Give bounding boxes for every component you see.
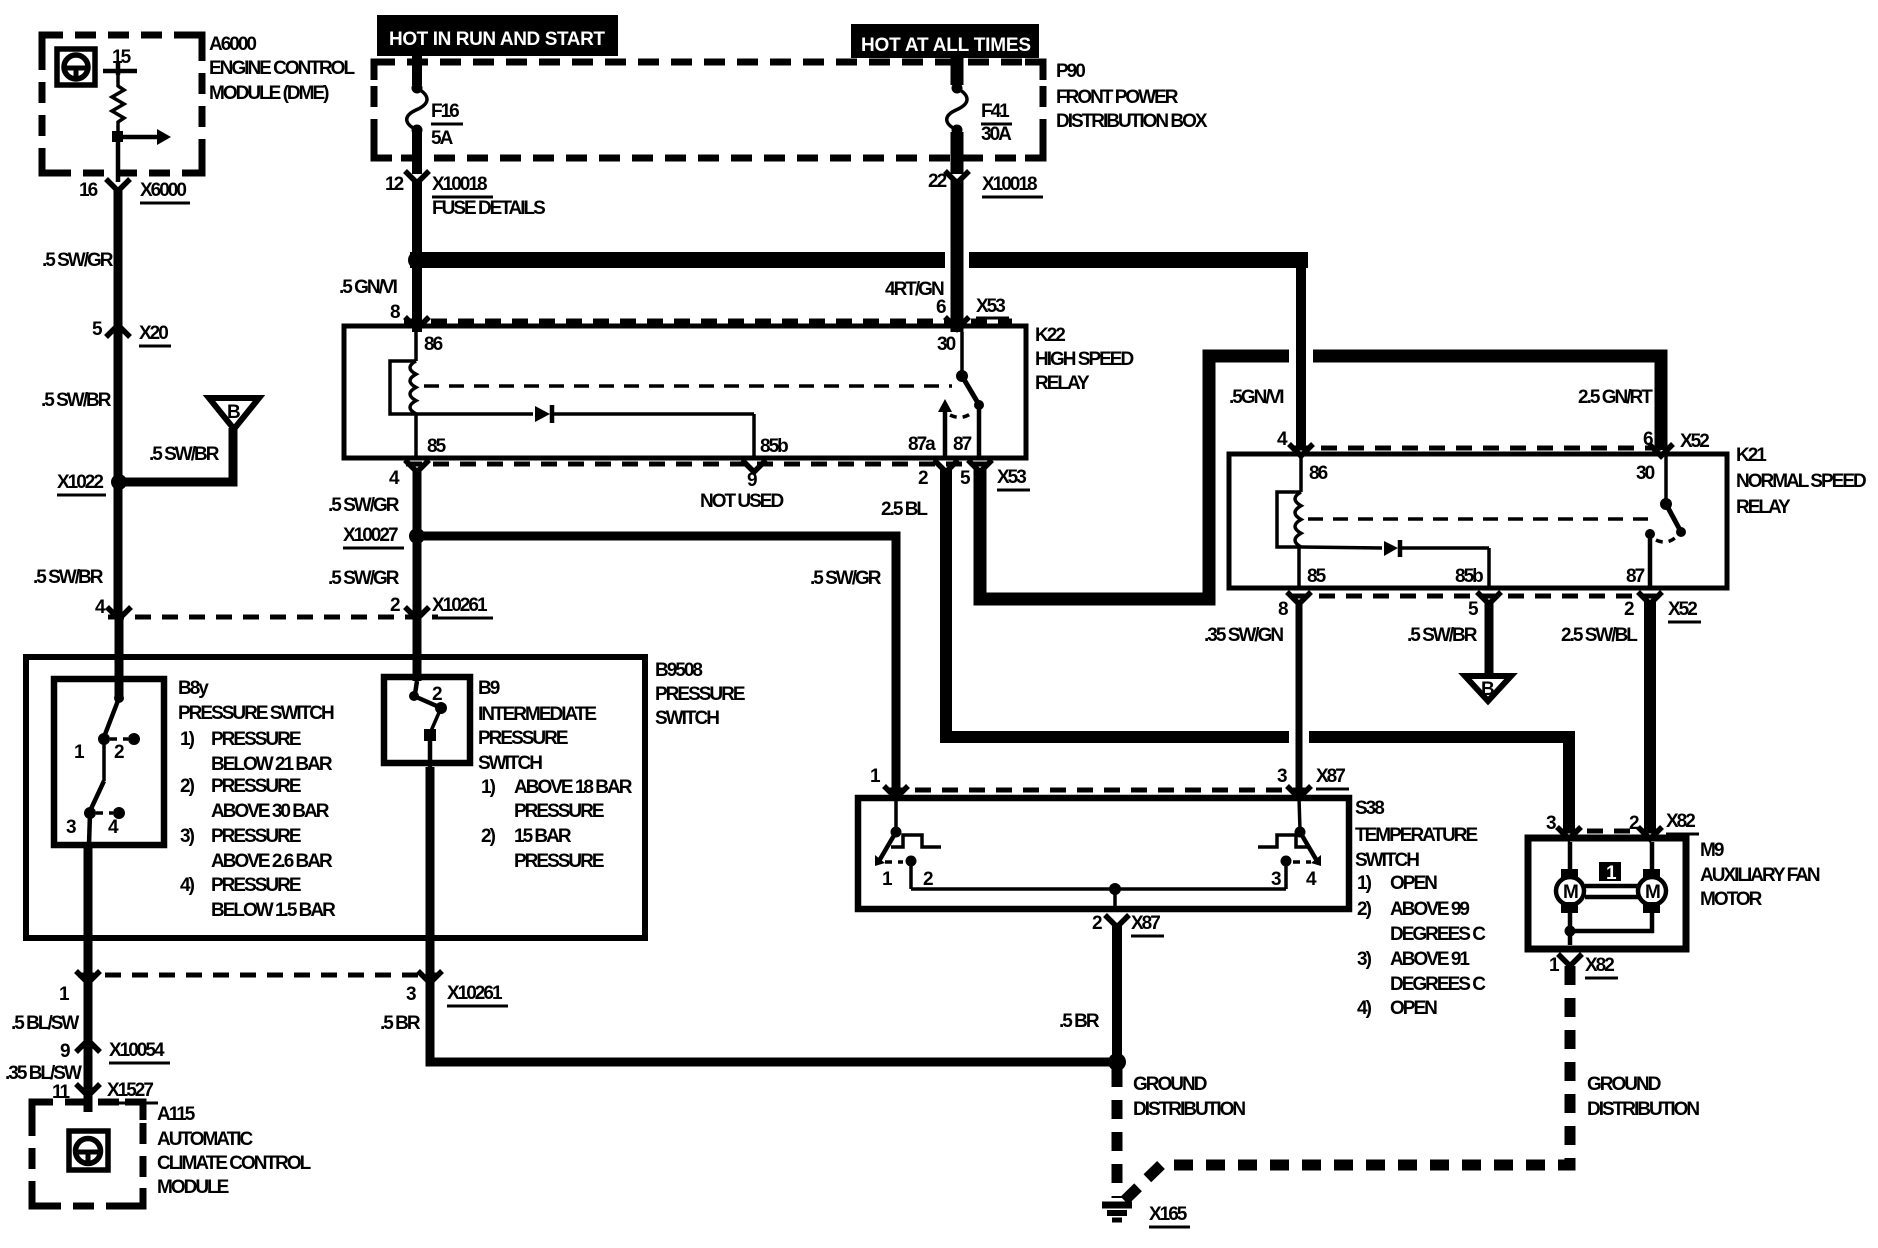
- wire bus right branch down to K21 pin4: [1296, 255, 1306, 447]
- connector X53 upper dashed line: [404, 319, 1012, 324]
- connector X82 pin 3 symbol: [1557, 827, 1581, 839]
- svg-text:F16: F16: [431, 101, 459, 122]
- svg-text:.5 SW/GR: .5 SW/GR: [810, 568, 882, 589]
- connector X53 pin 8 symbol: [405, 317, 429, 329]
- svg-text:MODULE: MODULE: [157, 1177, 229, 1198]
- label B8y description: [178, 678, 336, 921]
- svg-text:30: 30: [937, 334, 956, 355]
- svg-text:SWITCH: SWITCH: [478, 753, 542, 774]
- svg-text:87: 87: [953, 434, 972, 455]
- node junction bus at F16 wire: [408, 251, 426, 269]
- wire .5 SW/BR X20 to X1022: [114, 331, 123, 616]
- connector X10018 pin 22: [928, 171, 1043, 197]
- label K22 name: [1035, 325, 1133, 394]
- connector X10261 pin 2 symbol: [405, 607, 429, 619]
- svg-text:DEGREES C: DEGREES C: [1390, 924, 1486, 945]
- svg-text:22: 22: [928, 171, 947, 192]
- svg-text:.5 SW/BR: .5 SW/BR: [33, 567, 104, 588]
- label ground distribution right: [1587, 1074, 1699, 1120]
- svg-text:.5 SW/GR: .5 SW/GR: [42, 250, 114, 271]
- box B8y inner: [54, 679, 164, 845]
- svg-text:PRESSURE: PRESSURE: [478, 728, 568, 749]
- label X1022: [57, 472, 106, 495]
- connector X53 pin 9 symbol not used: [742, 460, 766, 472]
- svg-text:2): 2): [1357, 899, 1372, 920]
- wire K21 pin 85: [1297, 547, 1301, 588]
- arc dashed 87a-87 K22: [950, 412, 973, 417]
- resistor inside A6000: [112, 75, 124, 133]
- connector X82 dashed line: [1560, 829, 1658, 834]
- wire K21 coil to 85b with diode: [1301, 540, 1489, 588]
- switch K21 pin30 armature: [1660, 454, 1686, 537]
- label K21 name: [1736, 445, 1866, 518]
- svg-text:12: 12: [385, 174, 404, 195]
- svg-text:M: M: [1645, 882, 1660, 903]
- label A6000 name: [209, 34, 355, 104]
- svg-text:X1527: X1527: [107, 1080, 153, 1101]
- svg-text:NOT USED: NOT USED: [700, 491, 783, 512]
- connector X87 pin 1 symbol: [884, 786, 908, 798]
- svg-text:9: 9: [747, 470, 757, 491]
- svg-text:X10018: X10018: [432, 174, 487, 195]
- connector X10261 upper dashed line: [108, 615, 438, 620]
- svg-text:85b: 85b: [1455, 566, 1483, 587]
- wire dashed ground distribution left: [1112, 1068, 1123, 1198]
- svg-text:.5 SW/BR: .5 SW/BR: [1407, 625, 1478, 646]
- wire S38 ground .5 BR: [1112, 923, 1122, 1062]
- connector X87 pin 2 symbol: [1092, 913, 1164, 936]
- svg-text:MODULE (DME): MODULE (DME): [209, 83, 329, 104]
- svg-text:8: 8: [1278, 599, 1288, 620]
- svg-text:3: 3: [66, 817, 76, 838]
- svg-text:HIGH SPEED: HIGH SPEED: [1035, 349, 1133, 370]
- label A115 name: [157, 1104, 312, 1198]
- box A6000 corner ticks: [42, 35, 202, 173]
- label HOT AT ALL TIMES: [851, 24, 1039, 58]
- svg-text:X10261: X10261: [432, 595, 488, 616]
- label X10261 upper: [432, 595, 493, 618]
- svg-text:A6000: A6000: [209, 34, 256, 55]
- wire S38 output pin2: [1113, 889, 1117, 909]
- box P90 front power distribution: [374, 62, 1043, 158]
- svg-text:DISTRIBUTION: DISTRIBUTION: [1133, 1099, 1245, 1120]
- wire F16 down to K22 coil: [412, 180, 422, 332]
- svg-text:ABOVE 99: ABOVE 99: [1390, 899, 1469, 920]
- svg-text:.5 BL/SW: .5 BL/SW: [11, 1013, 79, 1034]
- svg-text:1): 1): [180, 729, 195, 750]
- svg-text:X6000: X6000: [140, 180, 186, 201]
- link dashed K22 coil to switch: [424, 384, 952, 388]
- svg-text:15: 15: [112, 47, 132, 68]
- connector X6000 pin 16: [79, 179, 190, 203]
- svg-text:2: 2: [432, 684, 442, 705]
- label X53 lower: [997, 467, 1030, 490]
- coil K22: [390, 332, 416, 414]
- connector X10261 pin 3 symbol: [418, 971, 442, 983]
- fuse F16 5A: [407, 56, 427, 174]
- wire S38 internal common: [911, 883, 1286, 895]
- svg-text:SWITCH: SWITCH: [1355, 850, 1419, 871]
- svg-text:4): 4): [180, 875, 195, 896]
- connector X53 pin 4 symbol: [405, 460, 429, 472]
- node ground junction dot: [1108, 1053, 1126, 1071]
- module A115 automatic climate control box: [32, 1102, 143, 1206]
- box B9 inner: [384, 677, 470, 763]
- label B9 description: [478, 678, 633, 872]
- svg-text:9: 9: [60, 1041, 70, 1062]
- motor M9 internals: [1556, 842, 1666, 945]
- svg-text:86: 86: [424, 334, 443, 355]
- connector X52 pin 2 symbol: [1638, 592, 1662, 604]
- label S38 name and list: [1355, 798, 1486, 1019]
- svg-text:AUXILIARY FAN: AUXILIARY FAN: [1700, 865, 1820, 886]
- svg-text:TEMPERATURE: TEMPERATURE: [1355, 825, 1478, 846]
- connector X52 upper dashed line: [1294, 446, 1670, 451]
- switch S38 temperature box: [858, 798, 1349, 909]
- svg-text:.5 BR: .5 BR: [380, 1013, 421, 1034]
- svg-text:X10018: X10018: [982, 174, 1037, 195]
- svg-text:X87: X87: [1131, 913, 1160, 934]
- label X52 upper: [1680, 431, 1713, 454]
- svg-text:30: 30: [1636, 463, 1655, 484]
- svg-text:5A: 5A: [431, 128, 454, 149]
- connector X20 pin 5: [92, 319, 171, 346]
- wire into B8y: [115, 617, 124, 700]
- svg-text:1): 1): [1357, 873, 1372, 894]
- svg-text:X1022: X1022: [57, 472, 103, 493]
- wire .5 SW/GR from X6000 to X20: [114, 189, 123, 331]
- svg-text:ENGINE CONTROL: ENGINE CONTROL: [209, 58, 355, 79]
- svg-text:NORMAL SPEED: NORMAL SPEED: [1736, 471, 1866, 492]
- svg-text:OPEN: OPEN: [1390, 998, 1437, 1019]
- link dashed K21 coil to switch: [1308, 517, 1658, 521]
- svg-text:87a: 87a: [908, 434, 936, 455]
- label F41 30A: [981, 101, 1012, 145]
- connector X52 pin 5 symbol: [1477, 592, 1501, 604]
- svg-text:85b: 85b: [760, 436, 788, 457]
- switch S38 left contact internals: [875, 798, 941, 889]
- svg-text:DISTRIBUTION: DISTRIBUTION: [1587, 1099, 1699, 1120]
- svg-text:.5 SW/GR: .5 SW/GR: [328, 568, 400, 589]
- svg-text:X53: X53: [976, 296, 1005, 317]
- svg-text:B9: B9: [478, 678, 500, 699]
- connector X10054 pin 9: [60, 1040, 170, 1063]
- wire K22 pin85 down to B9: [413, 468, 422, 681]
- wire K21 85b to ground B: [1485, 600, 1494, 674]
- node junction A6000 internal: [112, 131, 123, 142]
- node X10027 junction dot: [409, 528, 425, 544]
- connector X52 pin 6 symbol: [1649, 444, 1673, 456]
- svg-text:A115: A115: [157, 1104, 196, 1125]
- svg-text:.5 BR: .5 BR: [1059, 1011, 1100, 1032]
- svg-text:ABOVE 2.6 BAR: ABOVE 2.6 BAR: [211, 851, 333, 872]
- svg-text:X10261: X10261: [447, 983, 503, 1004]
- svg-text:ABOVE 30 BAR: ABOVE 30 BAR: [211, 801, 330, 822]
- svg-text:X82: X82: [1666, 811, 1695, 832]
- svg-text:F41: F41: [981, 101, 1010, 122]
- svg-text:6: 6: [936, 297, 946, 318]
- svg-text:16: 16: [79, 180, 98, 201]
- svg-text:X10027: X10027: [343, 525, 398, 546]
- wire K21 87 2.5 SW/BL to M9 pin2: [1644, 600, 1656, 833]
- svg-text:.5 SW/BR: .5 SW/BR: [149, 444, 220, 465]
- label X82 upper: [1666, 811, 1699, 834]
- svg-text:X87: X87: [1316, 766, 1345, 787]
- svg-text:PRESSURE: PRESSURE: [211, 729, 301, 750]
- svg-text:87: 87: [1626, 566, 1645, 587]
- svg-text:P90: P90: [1056, 61, 1085, 82]
- wire B9 output .5 BR to ground junction: [430, 767, 1110, 1062]
- connector X87 pin 3 symbol: [1287, 786, 1311, 798]
- svg-text:DEGREES C: DEGREES C: [1390, 974, 1486, 995]
- connector X10261 lower dashed line: [78, 973, 438, 978]
- wire K22 coil to 85b with diode: [416, 405, 754, 458]
- wire bus .5 GN/VI horizontal: [410, 252, 945, 268]
- svg-text:2.5 GN/RT: 2.5 GN/RT: [1578, 387, 1653, 408]
- svg-text:3): 3): [180, 826, 195, 847]
- fuse F41 30A: [947, 56, 967, 174]
- svg-text:PRESSURE: PRESSURE: [211, 875, 301, 896]
- svg-text:B: B: [227, 402, 240, 423]
- svg-text:RELAY: RELAY: [1035, 373, 1090, 394]
- svg-text:.35 BL/SW: .35 BL/SW: [5, 1063, 82, 1084]
- svg-text:86: 86: [1309, 463, 1328, 484]
- svg-text:1): 1): [481, 777, 496, 798]
- arrow output inside A6000: [118, 129, 171, 145]
- box P90 corner ticks: [374, 62, 1043, 158]
- icon steering-wheel A115: [69, 1131, 108, 1170]
- svg-text:ABOVE 18 BAR: ABOVE 18 BAR: [514, 777, 633, 798]
- ground triangle B right: [1465, 676, 1511, 701]
- svg-text:B8y: B8y: [178, 678, 209, 699]
- ground symbol X165: [1102, 1205, 1132, 1220]
- svg-text:3: 3: [1546, 813, 1556, 834]
- svg-text:PRESSURE: PRESSURE: [655, 684, 745, 705]
- svg-text:M: M: [1563, 882, 1578, 903]
- label ground distribution left: [1133, 1074, 1245, 1120]
- label X10261 lower: [447, 983, 508, 1006]
- svg-text:3: 3: [1277, 766, 1287, 787]
- svg-text:HOT IN RUN AND START: HOT IN RUN AND START: [389, 29, 605, 50]
- switch B9 internals: [409, 681, 447, 767]
- pin labels B8y 1 2 3 4: [66, 742, 124, 838]
- svg-text:2: 2: [918, 468, 928, 489]
- wire B8y output down to A115: [84, 845, 93, 1112]
- svg-text:.5 GN/VI: .5 GN/VI: [339, 277, 398, 298]
- svg-text:PRESSURE: PRESSURE: [211, 826, 301, 847]
- svg-text:INTERMEDIATE: INTERMEDIATE: [478, 704, 596, 725]
- pin 15 terminal bar: [103, 63, 137, 75]
- svg-text:2: 2: [390, 595, 400, 616]
- connector X52 pin 4 symbol: [1289, 444, 1313, 456]
- svg-text:X20: X20: [139, 323, 168, 344]
- label X165: [1149, 1204, 1190, 1227]
- wire branch to ground triangle B: [119, 428, 233, 482]
- svg-text:.5GN/VI: .5GN/VI: [1229, 387, 1284, 408]
- wire X53 pin2 2.5 BL to M9 pin3: [946, 468, 1289, 737]
- svg-text:ABOVE 91: ABOVE 91: [1390, 949, 1470, 970]
- svg-text:S38: S38: [1355, 798, 1384, 819]
- box B9508 pressure switch outer: [26, 657, 645, 938]
- svg-text:.5 SW/GR: .5 SW/GR: [328, 495, 400, 516]
- svg-text:FUSE DETAILS: FUSE DETAILS: [432, 198, 545, 219]
- svg-text:2): 2): [481, 826, 496, 847]
- svg-text:PRESSURE: PRESSURE: [514, 801, 604, 822]
- pin labels S38 1 2 3 4: [882, 869, 1317, 890]
- svg-text:X52: X52: [1668, 599, 1697, 620]
- svg-text:GROUND: GROUND: [1133, 1074, 1207, 1095]
- svg-text:8: 8: [390, 302, 400, 323]
- svg-text:X82: X82: [1585, 955, 1614, 976]
- svg-text:B: B: [1481, 679, 1494, 700]
- connector X82 pin 1 symbol: [1549, 954, 1618, 978]
- svg-text:85: 85: [1307, 566, 1327, 587]
- label F16 5A: [431, 101, 463, 149]
- svg-text:2: 2: [1092, 913, 1102, 934]
- svg-text:X52: X52: [1680, 431, 1709, 452]
- connector X10261 pin 4 symbol: [107, 607, 131, 619]
- label X10027: [343, 525, 404, 548]
- connector X82 pin 2 symbol: [1638, 827, 1662, 839]
- switch S38 right contact internals: [1258, 798, 1321, 889]
- svg-text:.5 SW/BR: .5 SW/BR: [41, 390, 112, 411]
- terminal 87a arrow K22: [938, 399, 952, 458]
- svg-text:15 BAR: 15 BAR: [514, 826, 572, 847]
- label P90 name: [1056, 61, 1208, 132]
- svg-text:PRESSURE: PRESSURE: [211, 776, 301, 797]
- svg-text:X53: X53: [997, 467, 1026, 488]
- arc dashed 87-armature K21: [1656, 538, 1675, 542]
- wire K22 pin 85: [414, 414, 418, 458]
- svg-text:3: 3: [1271, 869, 1281, 890]
- svg-text:PRESSURE SWITCH: PRESSURE SWITCH: [178, 703, 334, 724]
- motor M9 box: [1528, 838, 1686, 949]
- svg-text:MOTOR: MOTOR: [1700, 889, 1763, 910]
- node X1022 junction dot: [111, 474, 127, 490]
- svg-text:CLIMATE CONTROL: CLIMATE CONTROL: [157, 1153, 312, 1174]
- relay K22 box: [344, 326, 1026, 458]
- wire A6000 pin16 stub: [116, 137, 121, 182]
- svg-text:SWITCH: SWITCH: [655, 708, 719, 729]
- svg-text:PRESSURE: PRESSURE: [514, 851, 604, 872]
- svg-text:BELOW 1.5 BAR: BELOW 1.5 BAR: [211, 900, 336, 921]
- label X53 upper: [976, 296, 1009, 318]
- wire X53 pin5 2.5 GN/RT to K21 pin30: [980, 356, 1289, 599]
- svg-text:X165: X165: [1149, 1204, 1188, 1225]
- ground triangle B left: [209, 398, 259, 429]
- wire dashed ground distribution right: [1124, 966, 1570, 1201]
- svg-text:K21: K21: [1736, 445, 1767, 466]
- label HOT IN RUN AND START: [377, 15, 618, 56]
- wire K21 pin8 .35 SW/GN to S38: [1296, 600, 1303, 794]
- connector X53 pin 2 symbol: [934, 460, 958, 472]
- icon steering-wheel A6000: [57, 49, 95, 85]
- module A6000 engine control module box: [42, 35, 202, 173]
- svg-text:OPEN: OPEN: [1390, 873, 1437, 894]
- box A115 corner ticks: [32, 1102, 143, 1206]
- connector X1527 pin 11: [52, 1080, 158, 1103]
- svg-text:2: 2: [923, 869, 933, 890]
- wire F41 down to K22 pin30: [951, 180, 964, 332]
- svg-text:2: 2: [1624, 599, 1634, 620]
- connector X52 pin 8 symbol: [1287, 592, 1311, 604]
- svg-text:RELAY: RELAY: [1736, 497, 1791, 518]
- svg-text:X10054: X10054: [109, 1040, 165, 1061]
- svg-text:85: 85: [427, 436, 447, 457]
- terminal 87 K22: [977, 407, 982, 458]
- label X52 lower: [1668, 599, 1701, 622]
- svg-text:2: 2: [1629, 813, 1639, 834]
- connector X53 lower dashed line: [406, 462, 990, 467]
- svg-text:DISTRIBUTION BOX: DISTRIBUTION BOX: [1056, 111, 1208, 132]
- svg-text:BELOW 21 BAR: BELOW 21 BAR: [211, 754, 333, 775]
- connector X10261 pin 1 symbol: [76, 971, 100, 983]
- svg-text:K22: K22: [1035, 325, 1065, 346]
- svg-text:30A: 30A: [981, 124, 1012, 145]
- connector X10018 pin 12: [385, 171, 545, 219]
- relay K21 box: [1229, 454, 1727, 588]
- switch K22 pin30 armature: [956, 332, 984, 410]
- svg-text:GROUND: GROUND: [1587, 1074, 1661, 1095]
- connector X53 pin 6 symbol: [945, 317, 969, 329]
- svg-text:3): 3): [1357, 949, 1372, 970]
- label pin 9 not used: [700, 470, 783, 512]
- svg-text:3: 3: [406, 984, 416, 1005]
- svg-text:.35 SW/GN: .35 SW/GN: [1204, 625, 1283, 646]
- svg-text:M9: M9: [1700, 840, 1724, 861]
- svg-text:B9508: B9508: [655, 660, 702, 681]
- svg-text:2.5 SW/BL: 2.5 SW/BL: [1561, 625, 1638, 646]
- svg-text:2.5 BL: 2.5 BL: [881, 499, 928, 520]
- svg-text:FRONT POWER: FRONT POWER: [1056, 87, 1179, 108]
- switch B8y internals: [84, 693, 140, 845]
- coil K21: [1277, 454, 1301, 547]
- terminal 87 K21: [1645, 529, 1655, 588]
- svg-text:4): 4): [1357, 998, 1372, 1019]
- connector X52 lower dashed line: [1292, 594, 1658, 599]
- wire X10027 branch to S38: [417, 536, 896, 794]
- label B9508: [655, 660, 745, 729]
- svg-text:2): 2): [180, 776, 195, 797]
- label M9 name: [1700, 840, 1820, 910]
- svg-text:AUTOMATIC: AUTOMATIC: [157, 1129, 254, 1150]
- label X87 upper: [1316, 766, 1349, 789]
- connector X53 pin 5 symbol: [968, 460, 992, 472]
- connector X87 upper dashed line: [888, 788, 1307, 793]
- svg-text:2: 2: [114, 742, 124, 763]
- svg-text:HOT AT ALL TIMES: HOT AT ALL TIMES: [861, 35, 1030, 56]
